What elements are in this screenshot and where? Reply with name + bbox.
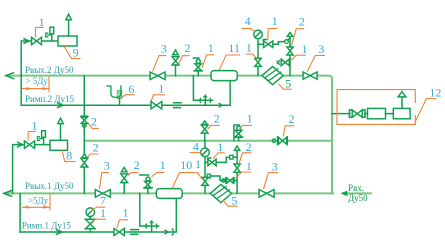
bypass valve 2 with plug [272,137,287,145]
wire vent from regulator 9 [68,20,70,36]
filter 5 bottom [210,184,231,202]
svg-text:3: 3 [161,41,167,55]
svg-text:1: 1 [247,112,253,126]
svg-text:2: 2 [134,158,140,172]
dimension >5Du bottom [22,194,50,211]
node arrow outlet 1 left [4,191,12,197]
label 1 [240,125,252,128]
label 5 [223,200,238,206]
svg-text:6: 6 [128,82,134,96]
label 5 [279,84,292,89]
svg-text:1: 1 [32,119,38,133]
label 1 [192,173,203,180]
vent valve 2 right [287,47,293,55]
svg-text:2: 2 [93,141,99,155]
label 2 [179,56,190,64]
wire vent stack x=237.1 [236,150,238,193]
svg-text:9: 9 [73,46,79,60]
svg-text:1: 1 [217,140,223,154]
label 4 [241,29,254,32]
label 1 [151,95,165,101]
wire gauge tap x=205 [204,141,206,194]
node flow arrow [24,39,29,44]
valve 1 bottom-left [24,141,34,148]
wire vent unit 12 [401,97,403,109]
node vent triangle [66,14,71,20]
svg-text:> 5Ду: > 5Ду [25,76,48,86]
valve 1 impulse 2 [151,102,162,109]
wire gauge branch y=162.4 [205,157,229,162]
wire vent stack x=290 [289,36,291,75]
label 7 [92,207,106,211]
sensor flag on regulator 2 [46,27,54,41]
node vent triangle bottom [234,146,239,150]
valve 1 on gauge tap bottom [202,177,209,185]
label 2 [207,125,219,129]
label 1 [202,55,214,68]
svg-text:4: 4 [245,14,251,28]
svg-text:2: 2 [246,140,252,154]
svg-text:5: 5 [231,193,237,207]
valve flanged unit 12 [349,110,367,117]
gauge 4 bottom [201,148,210,157]
vent valve 2 bottom [121,167,128,193]
label 1 [268,29,277,41]
node insulating joint = [131,230,139,235]
purge fitting bottom [140,193,159,232]
manometer cock 1 top [193,58,202,76]
wire vent from regulator 8 [60,124,62,141]
label 1 [213,153,225,159]
wire gauge tap x=258 [257,39,259,76]
valve 3 top-right [303,72,317,79]
purge fitting top [193,76,212,106]
svg-text:11: 11 [228,41,240,55]
wire right vertical main x=332 [331,78,333,193]
svg-text:1: 1 [123,206,129,220]
label 1 [291,55,306,60]
label 2 [239,153,251,164]
svg-text:3: 3 [272,160,278,174]
svg-text:1: 1 [246,40,252,54]
node vent triangle [58,118,64,123]
svg-text:3: 3 [318,42,324,56]
vent valve 2 upper [81,116,87,127]
label 2 [128,173,138,176]
regulator U8 box [50,140,68,150]
svg-text:Римп.2 Ду15: Римп.2 Ду15 [25,94,74,104]
label 2 [88,154,99,158]
valve 1 impulse 1 [114,228,124,235]
wire branch to unit 12 [332,113,350,115]
svg-text:Римп.1 Ду15: Римп.1 Ду15 [22,220,71,230]
svg-text:12: 12 [429,86,441,100]
label 1 [151,172,164,176]
wire impulse 2 up to meter [229,81,231,106]
label 1 [93,219,106,221]
wire left vertical x=20.1 [19,193,21,232]
label 3 [99,173,108,190]
vent valve 2 bottom-right [234,164,240,172]
node insulating joint = [174,103,181,108]
wire top outlet main line y=75.6 [6,76,332,79]
wire gauge branch y=44 [258,42,285,45]
svg-text:1: 1 [302,42,308,56]
svg-text:1: 1 [246,159,252,173]
node vent triangle [398,92,406,97]
label 1 [117,220,128,228]
label 10 [172,173,192,189]
svg-text:2: 2 [299,14,305,28]
svg-text:2: 2 [214,111,220,125]
valve 3 bottom-left [95,190,110,198]
wire link [386,113,394,115]
svg-text:2: 2 [185,41,191,55]
node arrow outlet 2 left [6,73,14,79]
svg-text:5: 5 [285,76,291,90]
wire regulator 2 line y=41 + left vertical x=21.2 [21,41,58,105]
svg-text:1: 1 [158,81,164,95]
svg-text:1: 1 [160,158,166,172]
label 9 [64,46,81,58]
svg-text:3: 3 [104,159,110,173]
valve 1 on gauge tap [255,58,261,66]
label 11 [219,55,240,70]
wire inlet stub y=193.4 [343,192,371,194]
svg-text:1: 1 [39,15,45,29]
svg-text:Рвых.2 Ду50: Рвых.2 Ду50 [25,65,74,75]
node flow arrow impulse 2 end [219,103,223,107]
wire middle bypass line y=140.7 [84,140,332,142]
label 12 [415,99,436,122]
svg-text:1: 1 [100,206,106,220]
svg-text:10: 10 [180,158,192,172]
wire regulator 1 line y=144.6 [13,145,50,194]
label 2 [88,122,99,128]
svg-text:Рвых.1 Ду50: Рвых.1 Ду50 [25,181,74,191]
siphon 6 [106,85,122,105]
wire bypass vertical x=84.3 [83,76,85,194]
meter 10 box [156,189,182,199]
svg-text:2: 2 [289,112,295,126]
boundary frame 12 [337,90,415,125]
vent valve 2 middle [201,121,208,141]
node flow arrow impulse 1 [57,230,63,235]
node flow arrow impulse 2 [58,103,64,108]
label 1 [36,27,44,37]
manometer cock 1 middle [234,125,243,141]
node flag fitting [285,39,290,44]
node arrow inlet [341,191,348,197]
wire impulse line 2 y=105.2 [21,104,230,106]
label 3 [264,173,279,190]
device box 2 unit 12 [393,108,410,118]
svg-text:Рвх.: Рвх. [348,183,364,193]
node flow arrow [18,142,23,147]
svg-text:>5Ду: >5Ду [28,196,49,206]
svg-text:8: 8 [66,148,72,162]
gauge 4 [254,30,263,39]
svg-text:1: 1 [208,41,214,55]
vent valve 2 top [172,50,179,76]
valve 3 bottom-right [259,190,274,198]
label 1 [236,172,252,178]
manometer 7 with valve [85,208,95,232]
label 6 [121,95,135,98]
svg-text:2: 2 [91,115,97,129]
wire bottom outlet main line y=193.4 [4,192,333,194]
meter 11 box [211,71,237,81]
dimension >5Du top [22,76,49,92]
label 3 [307,55,325,71]
label 1 [28,132,36,141]
node end cap impulse 1 [172,229,174,236]
label 2 [283,126,294,137]
label 1 [246,54,258,59]
wire impulse 1 up to meter 10 [175,198,177,232]
test valve 1 right branch [277,59,290,66]
label 2 [291,29,304,46]
filter 5 top [262,67,283,85]
svg-text:1: 1 [272,14,278,28]
valve 1 top-left [32,37,42,44]
valve 1 gauge branch [263,40,272,48]
node flag fitting bottom [230,155,238,159]
svg-text:1: 1 [195,157,201,171]
svg-text:4: 4 [193,140,199,154]
label 4 [190,152,201,154]
regulator U9 box [58,36,77,46]
svg-text:Ду50: Ду50 [348,193,368,203]
label 8 [62,151,76,162]
test valve 1 bottom branch [207,174,237,183]
valve 3 top-left [150,72,165,80]
node vent triangle [287,32,292,36]
manometer cock 1 bottom [140,175,152,193]
vent valve 2 lower [81,154,88,167]
wire impulse line 1 y=232 [20,231,175,233]
node flow arrow impulse 1 end [164,230,168,234]
device box unit 12 [368,108,386,118]
valve 1 gauge branch bottom [208,158,216,166]
sensor flag on regulator 1 [38,131,46,145]
label 3 [153,56,167,72]
